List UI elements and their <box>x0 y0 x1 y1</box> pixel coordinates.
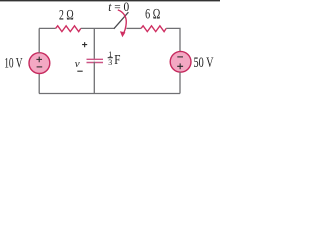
wire middle branch upper (node to capacitor) <box>93 28 95 60</box>
capacitor C1 lower plate <box>87 62 104 64</box>
top border line <box>0 0 220 1</box>
V1 minus sign (bottom) <box>37 66 43 68</box>
resistor R2 6 ohm zigzag <box>141 26 166 32</box>
resistor R1 2 ohm zigzag <box>56 26 81 32</box>
switch S1 blade <box>114 12 129 29</box>
V1 plus sign (top) <box>36 57 42 63</box>
wire V2 to bottom-right corner <box>179 72 181 94</box>
svg-text:2 Ω: 2 Ω <box>59 7 74 23</box>
wire switch to R2 <box>126 27 141 29</box>
switch S1 closing arrow <box>118 10 126 34</box>
svg-text:v: v <box>75 58 80 70</box>
wire V1 up to top-left corner <box>38 28 40 53</box>
svg-text:t = 0: t = 0 <box>108 0 129 14</box>
bottom wire <box>39 93 180 95</box>
svg-text:6 Ω: 6 Ω <box>145 7 160 23</box>
svg-text:F: F <box>114 53 120 68</box>
wire R1 to switch (through node at x=94.3) <box>81 27 114 29</box>
wire bottom-left corner up to V1 <box>38 73 40 93</box>
svg-text:10 V: 10 V <box>4 56 23 72</box>
wire top-left horizontal (corner to R1) <box>39 27 56 29</box>
voltage source V1 10V circle <box>29 53 50 74</box>
capacitor polarity minus <box>77 70 82 72</box>
voltage source V2 50V circle <box>170 51 191 72</box>
wire R2 to top-right corner, down to V2 <box>166 28 180 51</box>
V2 minus sign (top) <box>177 56 183 58</box>
capacitor polarity plus <box>82 42 87 47</box>
V2 plus sign (bottom) <box>177 63 183 69</box>
capacitor C1 upper plate <box>87 58 104 60</box>
svg-text:50 V: 50 V <box>194 55 215 71</box>
svg-text:3: 3 <box>108 58 112 67</box>
wire middle branch lower (capacitor to bottom) <box>93 62 95 94</box>
